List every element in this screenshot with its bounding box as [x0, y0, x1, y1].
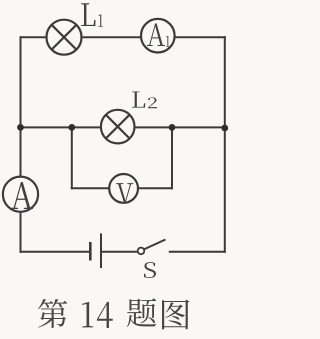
wire left side: [20, 36, 22, 253]
label L1 subscript 1: [98, 14, 103, 26]
wire voltmeter branch left vertical: [71, 127, 73, 189]
wire voltmeter branch bottom horizontal: [71, 187, 173, 189]
battery positive plate (long): [100, 233, 102, 268]
switch S lever arm: [144, 240, 166, 250]
voltmeter letter V: [116, 183, 133, 203]
wire bottom left (to battery): [20, 251, 91, 253]
node junction dot right of middle branch: [221, 125, 228, 132]
wire top (node from L1/A1 branch): [20, 36, 226, 38]
wire switch to bottom right: [169, 251, 226, 253]
ammeter A1: [141, 19, 175, 53]
battery negative plate (short): [89, 242, 92, 261]
caption char di (第): [38, 299, 67, 328]
ammeter A1 subscript 1: [166, 36, 170, 47]
ammeter A1 letter A: [147, 23, 165, 46]
wire battery to switch: [101, 251, 138, 253]
switch S pivot circle: [138, 248, 145, 255]
node junction dot voltmeter branch left: [68, 124, 75, 131]
label L1 letter L: [81, 3, 95, 26]
label S for switch: [144, 262, 156, 278]
wire middle branch through L2: [21, 126, 225, 128]
lamp L1: [47, 20, 82, 55]
ammeter A letter A: [11, 182, 33, 209]
voltmeter V: [109, 174, 138, 203]
caption char ti (题): [127, 298, 156, 327]
caption digit 4: [97, 302, 113, 328]
node junction dot voltmeter branch right: [169, 124, 176, 131]
lamp L2: [101, 110, 135, 144]
caption digit 1: [82, 302, 93, 327]
ammeter A: [3, 177, 38, 212]
caption char tu (图): [162, 300, 189, 330]
wire right side: [224, 36, 226, 253]
label L2 letter L: [132, 91, 145, 107]
wire voltmeter branch right vertical: [171, 127, 173, 189]
node junction dot left of middle branch: [17, 124, 24, 131]
label L2 subscript 2: [148, 97, 157, 108]
